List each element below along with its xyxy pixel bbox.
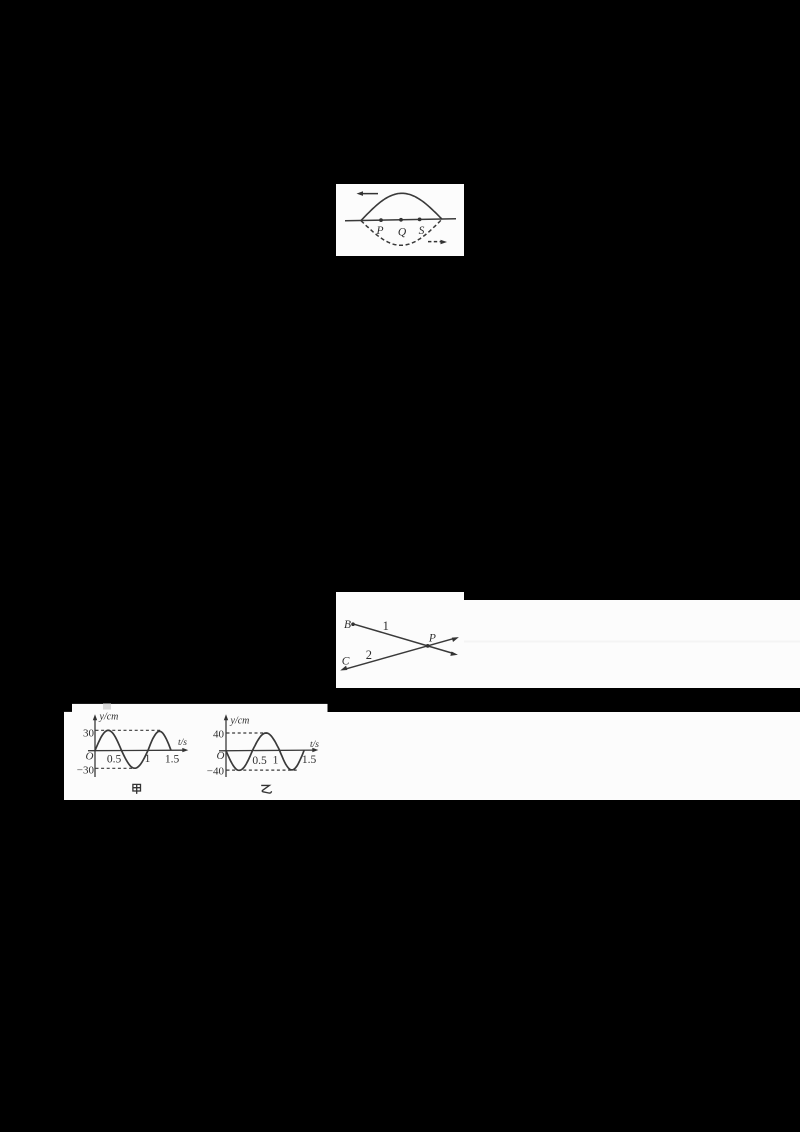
graph jia label t/s	[178, 738, 187, 748]
graph yi label -40	[207, 766, 225, 778]
graph jia dashed -30 line	[96, 767, 137, 769]
graph jia label 30	[83, 728, 95, 740]
node P dot	[379, 218, 383, 222]
ray 2 from lower-left arrow to upper-right arrow	[340, 637, 459, 670]
svg-text:1.5: 1.5	[165, 753, 180, 765]
svg-text:y/cm: y/cm	[230, 716, 250, 727]
svg-text:O: O	[86, 751, 94, 763]
svg-text:S: S	[419, 225, 425, 237]
svg-text:t/s: t/s	[178, 738, 187, 748]
point B dot	[351, 622, 355, 626]
graph yi sine wave	[226, 733, 304, 770]
label C (fig2)	[342, 656, 350, 668]
label S (fig1)	[419, 225, 425, 237]
graph yi label 1	[273, 755, 279, 767]
graph yi dashed -40 line	[227, 769, 298, 771]
graph jia dashed +30 line	[96, 729, 161, 731]
figure 1 left-pointing arrow	[357, 191, 379, 196]
label B (fig2)	[344, 619, 351, 631]
svg-text:1.5: 1.5	[302, 754, 317, 766]
graph jia label y/cm	[99, 712, 119, 723]
svg-text:t/s: t/s	[310, 740, 319, 750]
svg-text:40: 40	[213, 729, 225, 741]
figure 2 white panel (crossing rays)	[336, 592, 464, 688]
graph yi label t/s	[310, 740, 319, 750]
graph yi x-axis	[219, 748, 318, 752]
svg-text:1: 1	[145, 753, 151, 765]
graphs white band: small left notch	[64, 712, 72, 800]
svg-text:B: B	[344, 619, 351, 631]
node Q dot	[399, 218, 403, 222]
svg-text:C: C	[342, 656, 350, 668]
svg-text:1: 1	[383, 619, 389, 633]
svg-text:y/cm: y/cm	[99, 712, 119, 723]
graph jia y-axis	[93, 714, 97, 777]
graph jia x-axis	[88, 748, 188, 752]
svg-text:0.5: 0.5	[107, 754, 122, 766]
svg-text:P: P	[428, 633, 436, 645]
figure 1 dashed right-pointing arrow	[428, 240, 447, 245]
graph jia label -30	[77, 765, 95, 777]
graph jia label O	[86, 751, 94, 763]
graph jia label 1.5	[165, 753, 180, 765]
graph jia label 1	[145, 753, 151, 765]
graph jia label 0.5	[107, 754, 122, 766]
figure 1 dashed pulse (moving right)	[361, 219, 442, 245]
figure 1 white panel (wave pulses)	[336, 184, 464, 256]
graph yi y-axis	[224, 714, 228, 777]
label P (fig1)	[375, 225, 383, 237]
graph yi label 1.5	[302, 754, 317, 766]
faint fold line across right band	[464, 641, 800, 643]
graph yi dashed +40 line	[227, 732, 268, 734]
graph yi caption 乙 (drawn)	[261, 785, 271, 793]
svg-text:0.5: 0.5	[252, 755, 267, 767]
label P (fig2)	[428, 633, 436, 645]
svg-text:2: 2	[366, 648, 372, 662]
svg-text:O: O	[217, 750, 225, 762]
point P dot (crossing)	[426, 644, 430, 648]
figure 1 baseline (string)	[345, 219, 456, 221]
faint gray smudge above y/cm	[103, 704, 111, 710]
svg-text:−40: −40	[207, 766, 225, 778]
graph yi label y/cm	[230, 716, 250, 727]
svg-text:1: 1	[273, 755, 279, 767]
svg-text:30: 30	[83, 728, 95, 740]
graph yi label 0.5	[252, 755, 267, 767]
label Q (fig1)	[398, 227, 407, 239]
graph yi label 40	[213, 729, 225, 741]
svg-text:−30: −30	[77, 765, 95, 777]
node S dot	[418, 218, 422, 222]
label 1 (ray 1)	[383, 619, 389, 633]
graphs white band: left part	[72, 704, 328, 800]
graph yi label O	[217, 750, 225, 762]
graph jia sine wave	[95, 730, 171, 768]
svg-text:Q: Q	[398, 227, 407, 239]
figure 1 solid pulse (moving left)	[361, 193, 442, 220]
ray 1 from B to lower-right arrow	[353, 624, 458, 656]
graph jia caption 甲 (drawn)	[133, 784, 141, 794]
svg-text:P: P	[375, 225, 383, 237]
graphs white band: right part	[328, 712, 800, 800]
label 2 (ray 2)	[366, 648, 372, 662]
white band right of figure 2	[464, 600, 800, 688]
